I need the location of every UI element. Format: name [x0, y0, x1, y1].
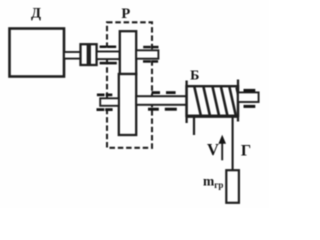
input shaft segment — [97, 52, 120, 60]
rope to load — [232, 116, 234, 171]
drum bottom thick edge — [186, 115, 239, 118]
input shaft right stub — [136, 50, 158, 58]
bearing B5 pads — [244, 89, 256, 108]
velocity arrow shaft — [221, 142, 223, 161]
gear Z2 (wheel) — [119, 74, 136, 135]
drum left flange — [185, 81, 187, 124]
output shaft left stub — [100, 98, 119, 106]
rope end stub under drum — [193, 116, 195, 135]
svg-text:V: V — [207, 140, 219, 159]
load (weight) body — [226, 170, 239, 203]
drum body — [187, 86, 239, 116]
drum right shaft stub — [238, 92, 259, 102]
coupling half 1 — [81, 44, 88, 65]
coupling half 2 — [90, 44, 97, 65]
bearing B4 pads — [148, 91, 177, 111]
bearing B2 pads — [143, 46, 159, 63]
bearing B1 upper pads — [100, 46, 117, 65]
svg-text:Г: Г — [241, 143, 251, 160]
reducer housing (dashed box) — [107, 22, 152, 148]
motor M1 body — [10, 29, 65, 77]
output shaft to drum — [136, 96, 186, 105]
svg-text:Б: Б — [190, 69, 199, 84]
bearing B3 pads — [97, 94, 113, 112]
velocity arrow head — [218, 135, 226, 144]
drum right flange — [237, 80, 239, 122]
svg-text:Р: Р — [121, 6, 130, 22]
svg-text:Д: Д — [31, 5, 41, 21]
motor shaft segment — [64, 52, 81, 59]
gear Z1 (pinion) — [120, 31, 136, 74]
drum rope hatching — [194, 87, 238, 115]
